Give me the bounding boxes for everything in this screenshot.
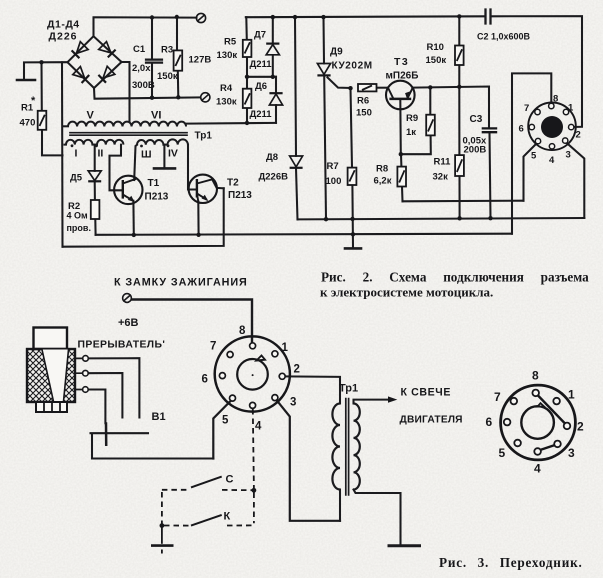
svg-text:К СВЕЧЕ: К СВЕЧЕ <box>401 387 452 399</box>
svg-text:Д8: Д8 <box>266 152 278 163</box>
svg-text:к электросистеме мотоцикла.: к электросистеме мотоцикла. <box>320 285 493 300</box>
svg-text:П213: П213 <box>145 192 169 203</box>
svg-text:2: 2 <box>577 420 584 434</box>
svg-text:R7: R7 <box>327 161 339 172</box>
svg-text:С3: С3 <box>470 114 483 125</box>
svg-text:6: 6 <box>519 124 524 135</box>
svg-text:Д226В: Д226В <box>259 172 289 183</box>
svg-text:Рис. 2. Схема подключения разъ: Рис. 2. Схема подключения разъема <box>321 270 589 285</box>
svg-text:3: 3 <box>566 150 571 161</box>
svg-text:5: 5 <box>531 151 537 162</box>
svg-text:200В: 200В <box>464 145 487 156</box>
svg-text:R10: R10 <box>427 42 444 53</box>
svg-text:6,2к: 6,2к <box>374 176 392 187</box>
svg-text:С2 1,0х600В: С2 1,0х600В <box>477 32 531 42</box>
svg-text:В1: В1 <box>152 411 166 423</box>
svg-text:150к: 150к <box>157 71 178 82</box>
svg-text:130к: 130к <box>216 97 237 108</box>
svg-text:R3: R3 <box>161 45 173 56</box>
svg-text:Ш: Ш <box>141 149 152 161</box>
svg-text:Д211: Д211 <box>250 109 273 120</box>
svg-text:IV: IV <box>168 148 178 160</box>
svg-text:8: 8 <box>532 369 539 383</box>
svg-text:5: 5 <box>499 446 506 460</box>
svg-text:2: 2 <box>576 130 581 141</box>
svg-text:4: 4 <box>549 155 555 166</box>
svg-text:7: 7 <box>524 103 529 114</box>
svg-text:1: 1 <box>568 388 575 402</box>
svg-text:С1: С1 <box>133 44 146 55</box>
svg-text:100: 100 <box>326 176 342 187</box>
svg-text:Т1: Т1 <box>148 178 160 189</box>
svg-text:ПРЕРЫВАТЕЛЬ': ПРЕРЫВАТЕЛЬ' <box>78 340 166 351</box>
svg-text:4 Ом: 4 Ом <box>67 211 89 221</box>
svg-text:КУ202М: КУ202М <box>332 61 373 72</box>
svg-text:+6В: +6В <box>118 317 139 329</box>
svg-text:150к: 150к <box>426 55 447 66</box>
svg-text:150: 150 <box>356 108 372 119</box>
svg-text:4: 4 <box>255 421 262 433</box>
svg-text:Д1-Д4: Д1-Д4 <box>47 19 80 31</box>
svg-text:I: I <box>75 148 78 160</box>
svg-text:Д9: Д9 <box>330 47 343 58</box>
svg-text:V: V <box>87 110 95 122</box>
svg-text:3: 3 <box>568 446 575 460</box>
svg-text:7: 7 <box>494 390 501 404</box>
svg-text:Д6: Д6 <box>255 81 267 92</box>
svg-text:VI: VI <box>151 110 161 122</box>
svg-text:R4: R4 <box>220 83 233 94</box>
svg-text:С: С <box>226 474 234 486</box>
svg-text:470: 470 <box>20 118 36 129</box>
svg-text:К: К <box>224 511 231 523</box>
svg-text:2,0х: 2,0х <box>132 63 151 74</box>
svg-text:8: 8 <box>553 94 558 105</box>
svg-text:ДВИГАТЕЛЯ: ДВИГАТЕЛЯ <box>400 415 463 426</box>
svg-text:4: 4 <box>534 462 541 476</box>
svg-text:127В: 127В <box>189 55 212 66</box>
svg-text:П213: П213 <box>228 190 252 201</box>
svg-text:мП26Б: мП26Б <box>386 71 419 82</box>
svg-text:II: II <box>98 148 104 160</box>
svg-text:R11: R11 <box>434 157 452 168</box>
svg-text:Д7: Д7 <box>254 30 266 41</box>
svg-text:1: 1 <box>282 342 289 354</box>
svg-text:8: 8 <box>239 325 246 337</box>
svg-text:2: 2 <box>294 364 300 376</box>
svg-text:32к: 32к <box>433 172 449 183</box>
svg-text:Т2: Т2 <box>227 178 239 189</box>
svg-text:R6: R6 <box>357 96 369 107</box>
svg-text:3: 3 <box>290 397 296 409</box>
svg-text:6: 6 <box>486 415 493 429</box>
svg-text:R9: R9 <box>406 113 418 124</box>
svg-text:5: 5 <box>222 415 229 427</box>
svg-text:6: 6 <box>202 374 208 386</box>
svg-text:Д211: Д211 <box>250 59 273 70</box>
svg-text:Тр1: Тр1 <box>339 383 358 395</box>
svg-text:К ЗАМКУ ЗАЖИГАНИЯ: К ЗАМКУ ЗАЖИГАНИЯ <box>114 277 248 289</box>
svg-text:*: * <box>31 95 36 107</box>
svg-text:1к: 1к <box>406 127 416 138</box>
svg-text:7: 7 <box>210 341 216 353</box>
svg-text:130к: 130к <box>217 50 238 61</box>
svg-text:Д5: Д5 <box>70 173 83 184</box>
svg-text:пров.: пров. <box>67 223 91 233</box>
svg-text:1: 1 <box>568 103 574 114</box>
svg-text:Т3: Т3 <box>394 56 409 68</box>
svg-text:300В: 300В <box>132 80 155 91</box>
svg-text:Рис. 3. Переходник.: Рис. 3. Переходник. <box>439 555 583 570</box>
svg-text:Д226: Д226 <box>49 31 78 43</box>
svg-text:Тр1: Тр1 <box>195 131 213 142</box>
svg-text:R5: R5 <box>224 37 237 48</box>
svg-text:R8: R8 <box>376 164 388 175</box>
